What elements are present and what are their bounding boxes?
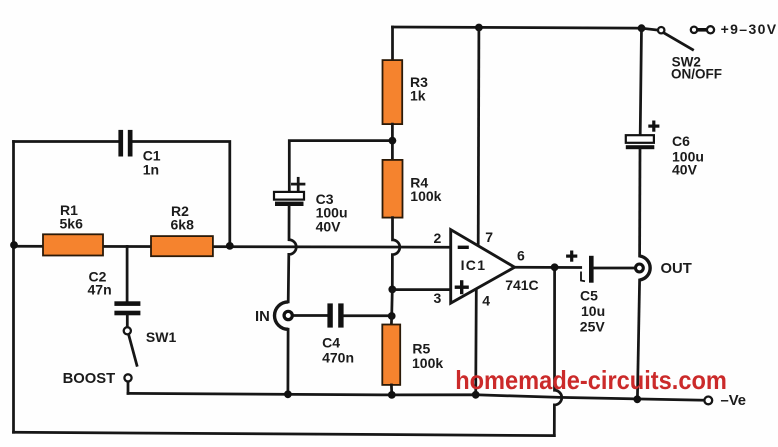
- node: C4/R5 junction: [388, 312, 396, 320]
- svg-text:6k8: 6k8: [171, 216, 195, 232]
- node: R5 at -Ve rail: [388, 391, 396, 399]
- svg-text:C5: C5: [580, 288, 598, 304]
- switch SW1 arm: [129, 335, 137, 366]
- switch SW2 terminal circle: [658, 27, 664, 33]
- label C5 10u 25V: [580, 288, 606, 335]
- svg-text:4: 4: [482, 292, 490, 308]
- svg-text:40V: 40V: [316, 218, 342, 234]
- label R2 6k8: [171, 203, 195, 232]
- resistor R5: [382, 325, 400, 385]
- label BOOST: [63, 371, 116, 387]
- wire: C5 to OUT pin: [594, 267, 636, 270]
- node: pin 4 at -Ve rail: [472, 391, 480, 399]
- node: output junction: [551, 263, 559, 271]
- terminal -Ve circle: [704, 397, 712, 405]
- label SW1: [146, 329, 177, 345]
- wire: R5 top lead: [390, 316, 393, 325]
- switch SW2 arm: [664, 33, 693, 50]
- wire: R3 to R4 link: [391, 124, 394, 160]
- capacitor C4: [327, 303, 343, 327]
- resistor R3: [383, 60, 403, 124]
- svg-text:C4: C4: [322, 335, 340, 351]
- wire: R4 bottom lead to pin 3 node (hops over signal line): [392, 218, 400, 290]
- capacitor C5 plus sign: [566, 251, 577, 262]
- svg-text:ON/OFF: ON/OFF: [671, 67, 722, 82]
- label +9-30V: [721, 21, 777, 37]
- capacitor C2: [114, 301, 140, 315]
- wire: junction to SW2: [642, 28, 658, 30]
- wire: IN jack bottom lead to -Ve rail: [287, 329, 290, 394]
- wire: C6 bottom lead to OUT jack: [638, 149, 641, 256]
- wire: R5 bottom lead: [390, 385, 393, 395]
- node: R3/R4 junction: [389, 137, 397, 145]
- watermark homemade-circuits.com: [455, 365, 727, 395]
- wire: pin 6 output lead to C5: [515, 266, 581, 269]
- label pin 6: [517, 248, 525, 264]
- op-amp minus input symbol: [458, 246, 469, 249]
- wire: C4 to R5 top junction: [344, 314, 392, 317]
- wire: pin 3 lead: [392, 288, 450, 291]
- svg-text:2: 2: [434, 230, 442, 246]
- svg-text:C6: C6: [672, 133, 690, 149]
- label pin 2: [434, 230, 442, 246]
- capacitor C3: [274, 192, 304, 206]
- wire: pin3 node down to C4/R5 junction: [390, 289, 393, 316]
- svg-text:IN: IN: [255, 309, 270, 325]
- wire: C2 drop from signal line: [126, 246, 129, 301]
- svg-text:6: 6: [517, 248, 525, 264]
- op-amp plus input symbol: [455, 280, 469, 294]
- label C3 100u 40V: [316, 191, 348, 234]
- switch SW1 terminal circle: [124, 327, 131, 334]
- connector IN jack pin ring: [284, 311, 292, 319]
- svg-text:1n: 1n: [143, 162, 159, 178]
- label IN: [255, 309, 270, 325]
- svg-text:–Ve: –Ve: [721, 393, 747, 409]
- svg-text:741C: 741C: [505, 277, 538, 293]
- label OUT: [661, 261, 692, 277]
- supply terminal circles +9-30V: [691, 26, 714, 33]
- label C6 100u 40V: [672, 133, 704, 177]
- capacitor C3 plus sign: [292, 178, 304, 190]
- wire: C3 bottom lead to IN jack (hops over signal line): [288, 206, 296, 302]
- svg-text:3: 3: [434, 290, 442, 306]
- label pin 7: [485, 229, 493, 245]
- node: R2 right junction: [226, 242, 234, 250]
- label SW2 ON/OFF: [671, 54, 722, 81]
- wire: left feedback vertical: [12, 142, 15, 433]
- wire: OUT jack bottom lead to -Ve rail: [637, 280, 639, 399]
- capacitor C6: [626, 135, 655, 149]
- node: top rail / C6 / SW2 junction: [638, 24, 646, 32]
- wire: IN pin to C4: [295, 314, 328, 317]
- connector OUT jack pin ring: [636, 264, 644, 272]
- wire: bottom feedback rail: [14, 432, 555, 435]
- svg-text:1k: 1k: [410, 87, 426, 103]
- svg-text:IC1: IC1: [461, 257, 487, 273]
- svg-text:SW1: SW1: [146, 329, 177, 345]
- label pin 4: [482, 292, 490, 308]
- label R5 100k: [412, 341, 443, 372]
- wire: BOOST drop to -Ve rail: [127, 382, 130, 394]
- svg-text:5k6: 5k6: [60, 215, 84, 231]
- resistor R4: [383, 160, 403, 218]
- svg-text:40V: 40V: [672, 161, 698, 177]
- label R4 100k: [410, 175, 441, 204]
- wire: signal line R1/R2 to pin 2: [14, 245, 451, 249]
- wire: pin 7 lead: [477, 28, 480, 246]
- svg-text:25V: 25V: [580, 319, 606, 335]
- svg-text:homemade-circuits.com: homemade-circuits.com: [455, 365, 727, 395]
- node: R1 left junction: [10, 241, 18, 249]
- node: C6/OUT at -Ve rail: [633, 395, 641, 403]
- node: top rail / pin 7 junction: [475, 24, 483, 32]
- label R3 1k: [410, 74, 428, 103]
- wire: C1 right lead and drop to R2 right node: [133, 142, 230, 247]
- svg-text:470n: 470n: [322, 349, 354, 365]
- label C1 1n: [143, 147, 161, 177]
- wire: C3 top lead from R3/R4 junction: [289, 141, 392, 192]
- label pin 3: [434, 290, 442, 306]
- node: IN at -Ve rail: [284, 390, 292, 398]
- wire: C6 top lead: [640, 28, 641, 135]
- svg-text:100k: 100k: [410, 188, 441, 204]
- op-amp IC1 triangle: [451, 230, 515, 304]
- svg-text:10u: 10u: [581, 303, 605, 319]
- wire: pin 4 lead: [474, 289, 477, 395]
- svg-text:7: 7: [485, 229, 493, 245]
- svg-text:47n: 47n: [88, 282, 112, 298]
- svg-text:OUT: OUT: [661, 261, 692, 277]
- wire: R3 top lead: [391, 27, 394, 60]
- label C2 47n: [88, 269, 112, 298]
- label IC1: [461, 257, 487, 273]
- resistor R2: [151, 236, 213, 256]
- capacitor C5: [581, 256, 594, 283]
- svg-text:100k: 100k: [412, 355, 443, 371]
- capacitor C6 plus sign: [648, 121, 659, 132]
- node: pin 3 junction: [388, 286, 396, 294]
- switch SW1 BOOST terminal circle: [124, 374, 131, 381]
- label -Ve: [721, 393, 747, 409]
- connector OUT jack shell arc: [640, 256, 651, 280]
- resistor R1: [43, 234, 103, 255]
- label C4 470n: [322, 335, 354, 366]
- label 741C: [505, 277, 538, 293]
- capacitor C1: [118, 130, 132, 157]
- wire: -Ve rail: [128, 393, 704, 400]
- wire: C2 to SW1: [126, 315, 129, 327]
- wire: feedback riser to output (hops over -Ve rail): [554, 267, 561, 435]
- svg-text:BOOST: BOOST: [63, 371, 116, 387]
- wire: C1 left lead: [14, 140, 119, 143]
- connector IN jack shell arc: [275, 302, 289, 329]
- wire: top supply rail: [393, 27, 642, 28]
- label R1 5k6: [60, 202, 84, 231]
